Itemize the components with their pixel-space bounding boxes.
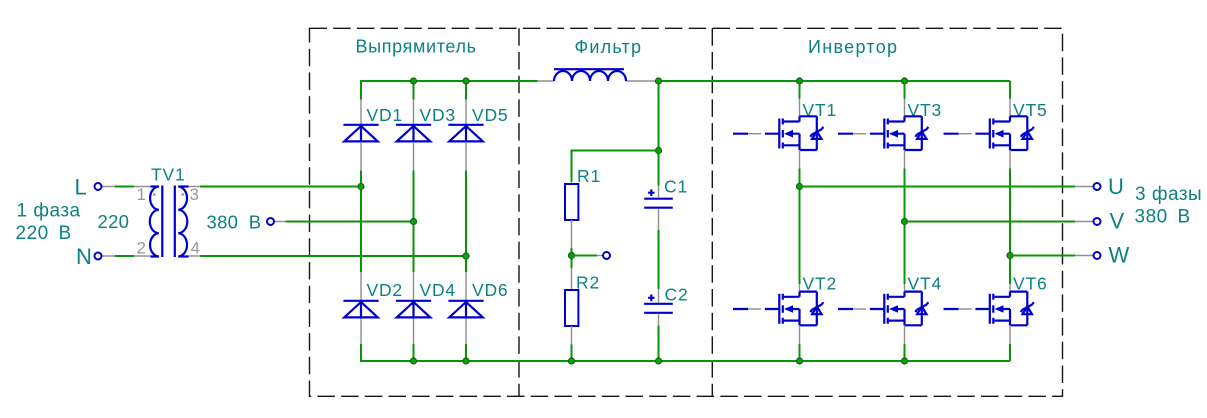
svg-text:4: 4 [191, 239, 200, 258]
top bus drop VT1 [799, 81, 801, 99]
terminal U [1094, 183, 1101, 190]
junction C1 top link [655, 147, 661, 153]
top bus drop VD3 [413, 81, 415, 100]
svg-text:Инвертор: Инвертор [808, 37, 898, 57]
top bus drop VT3 [904, 81, 906, 99]
wire column VD1-VD2 [360, 171, 362, 273]
filter C1 column [658, 81, 660, 186]
terminal mid tap [603, 252, 610, 259]
wire phase V [905, 221, 1076, 223]
primary winding [150, 187, 159, 257]
svg-text:3: 3 [190, 185, 199, 204]
junction phase col3 [463, 253, 469, 259]
svg-text:VD3: VD3 [420, 105, 456, 125]
core [162, 186, 175, 258]
wire column VT1-VT2 [799, 169, 801, 285]
junction top bus VD5 [463, 78, 469, 84]
junction bottom VD6 [463, 358, 469, 364]
svg-text:Фильтр: Фильтр [575, 37, 643, 57]
top bus drop VD5 [465, 81, 467, 100]
svg-text:380 В: 380 В [1135, 207, 1191, 228]
junction inverter top bus VT3 [901, 78, 907, 84]
junction phase W [1007, 252, 1013, 258]
junction phase U [796, 183, 802, 189]
bottom bus riser VD4 [413, 344, 415, 361]
wire N to TV1 pin2 [103, 255, 151, 257]
junction R2 bottom bus [568, 358, 574, 364]
wire TV1 pin3 to rectifier [189, 186, 200, 188]
svg-text:2: 2 [137, 239, 146, 258]
terminal V [1094, 218, 1101, 225]
wire R1-R2 node [571, 248, 573, 268]
terminal W [1094, 252, 1101, 259]
junction mid tap [568, 252, 574, 258]
bottom bus riser VD6 [465, 344, 467, 361]
svg-text:3 фазы: 3 фазы [1135, 184, 1202, 205]
wire phase W [1010, 255, 1075, 257]
junction C2 bottom bus [655, 358, 661, 364]
divider rectifier|filter [518, 28, 520, 396]
wire column VD3-VD4 [413, 171, 415, 273]
junction inverter top bus VT1 [796, 78, 802, 84]
junction phase mid col [410, 218, 416, 224]
svg-text:L: L [75, 175, 87, 200]
wire R1 top link [572, 151, 659, 182]
terminal 380 B tap [267, 218, 274, 225]
svg-text:TV1: TV1 [151, 165, 186, 185]
dashed block frame (rectifier / filter / inverter) [310, 28, 1063, 396]
junction top bus VD3 [410, 78, 416, 84]
svg-text:1 фаза: 1 фаза [17, 201, 81, 222]
divider filter|inverter [711, 28, 713, 396]
wire column VD5-VD6 [465, 171, 467, 273]
svg-text:1: 1 [137, 185, 146, 204]
wire 380B tap to rectifier [275, 221, 286, 223]
svg-text:U: U [1108, 174, 1124, 199]
secondary winding [178, 187, 188, 257]
svg-text:C1: C1 [664, 177, 688, 197]
svg-text:VD2: VD2 [367, 280, 403, 300]
junction filter top [655, 78, 661, 84]
svg-text:R2: R2 [576, 273, 600, 293]
svg-text:VD6: VD6 [472, 280, 508, 300]
polarity dots [153, 193, 156, 196]
wire inductor to inverter top bus [655, 80, 1010, 82]
svg-text:220 В: 220 В [16, 223, 72, 244]
terminal L [95, 183, 102, 190]
svg-text:VD1: VD1 [367, 105, 403, 125]
wire mid tap to terminal [572, 255, 598, 257]
junction bottom VT2 [796, 358, 802, 364]
svg-text:W: W [1109, 243, 1130, 268]
svg-text:220: 220 [98, 211, 130, 232]
svg-text:V: V [1110, 209, 1125, 234]
top bus drop VT5 [1009, 81, 1011, 99]
wire phase U [800, 186, 1076, 188]
svg-text:VD4: VD4 [420, 280, 456, 300]
svg-text:C2: C2 [665, 285, 689, 305]
top DC bus (rectifier to filter) [361, 81, 538, 100]
svg-text:VD5: VD5 [472, 105, 508, 125]
wire TV1 pin4 to rectifier [189, 255, 200, 257]
svg-text:N: N [76, 244, 92, 269]
junction phase V [901, 218, 907, 224]
junction bottom VD4 [410, 358, 416, 364]
wire L to TV1 pin1 [103, 186, 151, 188]
wire column VT3-VT4 [904, 169, 906, 285]
terminal N [95, 253, 102, 260]
junction bottom VT4 [901, 358, 907, 364]
bottom DC bus [361, 344, 1010, 361]
junction phase L col [358, 183, 364, 189]
svg-text:R1: R1 [577, 166, 601, 186]
wire column VT5-VT6 [1009, 169, 1011, 285]
svg-text:380 В: 380 В [207, 212, 262, 233]
svg-text:Выпрямитель: Выпрямитель [356, 37, 477, 57]
inductor L filter choke [538, 80, 656, 82]
